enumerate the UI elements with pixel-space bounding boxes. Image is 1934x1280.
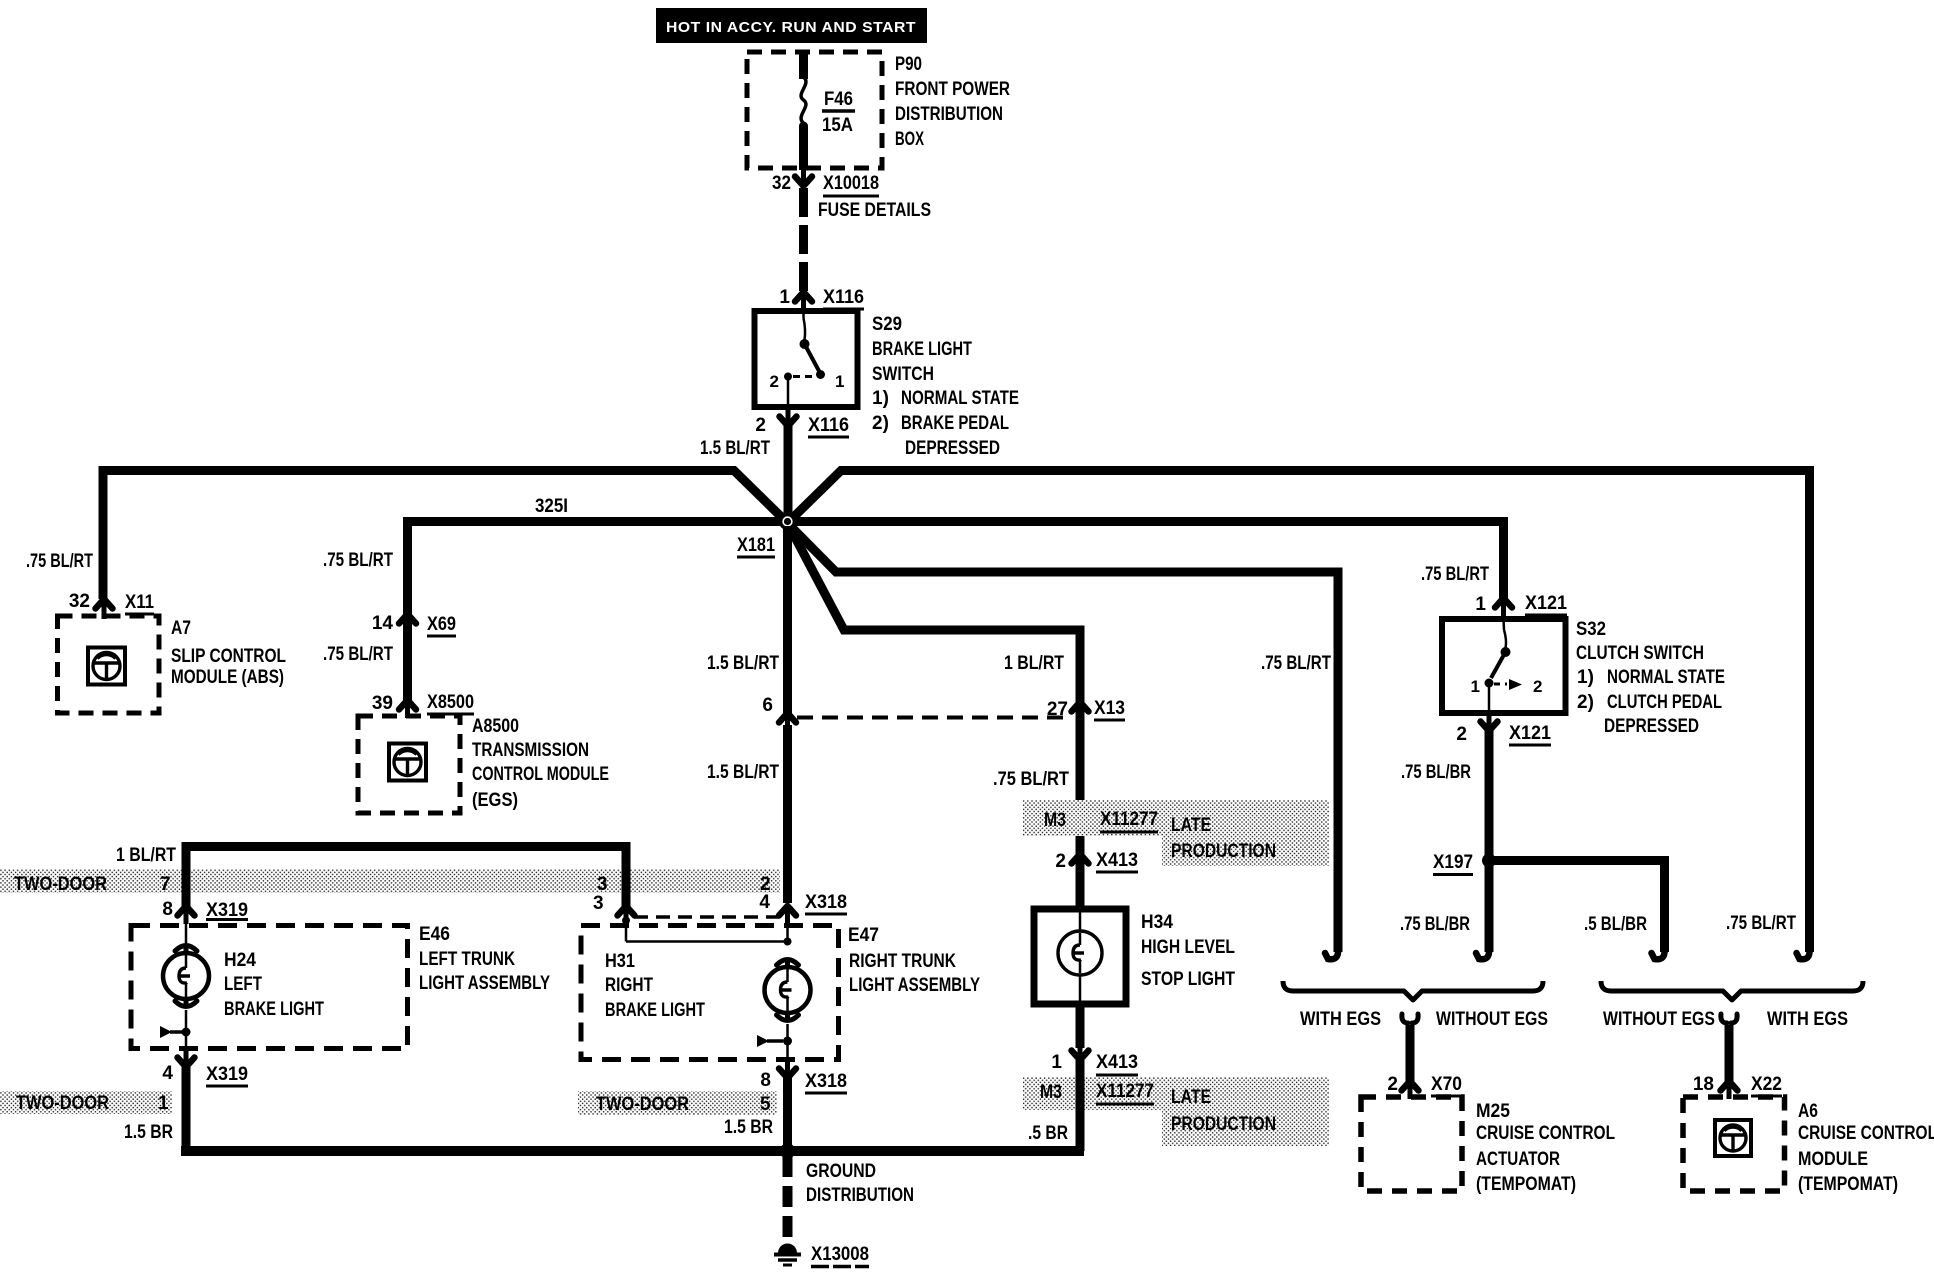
svg-text:TWO-DOOR: TWO-DOOR (14, 874, 107, 895)
label .75 BL/BR (below S32) (1401, 762, 1471, 783)
svg-text:BOX: BOX (895, 129, 924, 150)
label FUSE DETAILS (818, 200, 931, 221)
svg-text:LATE: LATE (1171, 1087, 1211, 1108)
module A8500 box (dashed) (358, 716, 460, 813)
svg-text:14: 14 (372, 613, 394, 634)
icon A8500 module (389, 744, 426, 781)
svg-text:STOP LIGHT: STOP LIGHT (1141, 969, 1235, 990)
svg-text:CLUTCH PEDAL: CLUTCH PEDAL (1607, 692, 1722, 713)
splice arrow H24 (160, 1026, 191, 1051)
svg-text:BRAKE LIGHT: BRAKE LIGHT (224, 999, 324, 1020)
connector X121 pin 2 (1456, 715, 1551, 745)
label A8500 TRANSMISSION CONTROL MODULE (EGS) (472, 716, 609, 811)
wire hook without-egs-left (brace2) (1652, 938, 1665, 959)
splice arrow H31 (757, 1035, 792, 1062)
labels TWO-DOOR 1 (16, 1093, 169, 1114)
wire node to EGS-option branch (788, 523, 1339, 940)
svg-text:BRAKE LIGHT: BRAKE LIGHT (605, 1000, 705, 1021)
label .75 BL/RT (X13 below) (993, 769, 1069, 790)
label S32 CLUTCH SWITCH notes (1576, 619, 1725, 737)
fuse F46 15A (799, 50, 808, 170)
svg-text:7: 7 (160, 874, 171, 895)
brace EGS options (right pair) (1601, 981, 1863, 1000)
svg-text:HIGH LEVEL: HIGH LEVEL (1141, 937, 1235, 958)
svg-text:X13: X13 (1094, 698, 1125, 719)
svg-text:A7: A7 (171, 618, 191, 639)
label P90 FRONT POWER DISTRIBUTION BOX (895, 54, 1010, 150)
lamp H34 box (1034, 909, 1126, 1004)
wire X197 down (1485, 865, 1494, 940)
svg-text:1.5 BL/RT: 1.5 BL/RT (707, 762, 779, 783)
svg-text:LIGHT ASSEMBLY: LIGHT ASSEMBLY (419, 973, 550, 994)
svg-text:1 BL/RT: 1 BL/RT (1004, 653, 1064, 674)
svg-text:1): 1) (872, 388, 889, 409)
label 1.5 BL/RT (below node) (707, 653, 779, 674)
label F46 / 15A (822, 89, 855, 136)
svg-text:RIGHT: RIGHT (605, 975, 653, 996)
label E46 LEFT TRUNK LIGHT ASSEMBLY (419, 924, 550, 994)
label .75 BL/RT (X69 below) (323, 644, 393, 665)
svg-text:X11: X11 (125, 592, 154, 613)
labels TWO-DOOR 7 3 2 (top band) (14, 874, 771, 895)
svg-text:SWITCH: SWITCH (872, 364, 934, 385)
svg-text:39: 39 (372, 693, 393, 714)
svg-text:BRAKE PEDAL: BRAKE PEDAL (901, 413, 1009, 434)
wire ground bus (181, 1146, 1084, 1156)
svg-text:X181: X181 (737, 535, 775, 556)
wire node to A8500 branch (408, 522, 788, 615)
svg-text:6: 6 (762, 695, 773, 716)
connector X413 pin 1 (1051, 1044, 1138, 1075)
wire X13 to X413 (1076, 704, 1085, 854)
svg-text:8: 8 (760, 1070, 771, 1091)
svg-text:1: 1 (158, 1093, 169, 1114)
svg-text:SLIP CONTROL: SLIP CONTROL (171, 646, 286, 667)
svg-text:27: 27 (1047, 699, 1068, 720)
switch S32 contacts (1471, 619, 1543, 717)
svg-text:1.5 BL/RT: 1.5 BL/RT (700, 438, 770, 459)
svg-text:TRANSMISSION: TRANSMISSION (472, 740, 589, 761)
svg-text:.75 BL/BR: .75 BL/BR (1400, 914, 1470, 935)
svg-text:WITH EGS: WITH EGS (1300, 1009, 1381, 1030)
label A6 CRUISE CONTROL MODULE (TEMPOMAT) (1798, 1101, 1934, 1195)
wire node to H34 branch (788, 523, 1081, 702)
wire trunk jumper (186, 847, 626, 907)
gray band TWO-DOOR (top) (0, 869, 780, 893)
svg-text:1.5 BL/RT: 1.5 BL/RT (707, 653, 779, 674)
svg-text:BRAKE LIGHT: BRAKE LIGHT (872, 339, 972, 360)
module A6 box (dashed) (1683, 1097, 1785, 1191)
svg-text:DISTRIBUTION: DISTRIBUTION (895, 104, 1003, 125)
connector X121 pin 1 (1475, 593, 1567, 616)
svg-text:2: 2 (1533, 677, 1542, 696)
node X181 junction (781, 515, 795, 529)
svg-text:P90: P90 (895, 54, 922, 75)
svg-text:.75 BL/RT: .75 BL/RT (1261, 653, 1331, 674)
svg-text:2: 2 (1456, 724, 1467, 745)
label 1.5 BR (left) (124, 1122, 173, 1143)
svg-text:X121: X121 (1525, 593, 1567, 614)
svg-text:H34: H34 (1141, 912, 1173, 933)
wire S29 pin2 to node X181 (784, 426, 793, 519)
svg-text:32: 32 (69, 591, 90, 612)
ground symbol X13008 (774, 1244, 869, 1267)
label .5 BR (1028, 1123, 1068, 1144)
label H34 HIGH LEVEL STOP LIGHT (1141, 912, 1235, 990)
svg-text:X11277: X11277 (1100, 809, 1158, 830)
svg-text:2): 2) (1577, 692, 1594, 713)
lamp H31 right brake light (765, 959, 811, 1038)
dashed option link pin6 to X13 (797, 716, 1070, 720)
svg-text:1: 1 (1471, 677, 1480, 696)
svg-text:X319: X319 (206, 1064, 248, 1085)
labels M3 X11277 LATE PRODUCTION (upper) (1044, 809, 1276, 862)
label A7 SLIP CONTROL MODULE (ABS) (171, 618, 286, 688)
svg-text:M3: M3 (1044, 810, 1066, 831)
wire hook without-egs-right (brace1) (1476, 938, 1489, 959)
wire X413 pin1 to ground bus (1076, 1060, 1085, 1151)
connector X22 pin 18 (1693, 1074, 1782, 1099)
svg-text:1.5 BR: 1.5 BR (124, 1122, 173, 1143)
svg-text:LATE: LATE (1171, 815, 1211, 836)
svg-text:18: 18 (1693, 1074, 1714, 1095)
svg-text:MODULE: MODULE (1798, 1149, 1868, 1170)
svg-text:NORMAL STATE: NORMAL STATE (901, 388, 1019, 409)
fuse box P90 (dashed) (747, 52, 882, 168)
wire node down to pin 6 (783, 526, 792, 713)
svg-text:1.5 BR: 1.5 BR (724, 1117, 773, 1138)
svg-text:1 BL/RT: 1 BL/RT (116, 845, 176, 866)
svg-text:X319: X319 (206, 900, 248, 921)
svg-text:CLUTCH SWITCH: CLUTCH SWITCH (1576, 643, 1704, 664)
svg-text:(TEMPOMAT): (TEMPOMAT) (1476, 1174, 1576, 1195)
svg-text:.75 BL/RT: .75 BL/RT (1726, 913, 1796, 934)
connector X13 pin 27 (1047, 698, 1125, 720)
svg-text:4: 4 (759, 892, 770, 913)
svg-text:X13008: X13008 (811, 1244, 869, 1265)
svg-text:.75 BL/RT: .75 BL/RT (323, 550, 393, 571)
icon A7 module (88, 648, 125, 685)
svg-text:1: 1 (779, 287, 790, 308)
svg-text:A6: A6 (1798, 1101, 1818, 1122)
svg-text:1: 1 (1475, 594, 1486, 615)
label H31 RIGHT BRAKE LIGHT (605, 951, 705, 1021)
svg-text:X70: X70 (1431, 1074, 1462, 1095)
connector X318 pin 4 (759, 892, 847, 924)
labels TWO-DOOR 5 (596, 1094, 771, 1115)
label 1.5 BL/RT (switch feed) (700, 438, 770, 459)
lamp H34 bulb (1058, 912, 1102, 1001)
svg-text:(TEMPOMAT): (TEMPOMAT) (1798, 1174, 1898, 1195)
connector pin 6 (762, 695, 796, 729)
svg-text:.75 BL/RT: .75 BL/RT (323, 644, 393, 665)
svg-text:1: 1 (835, 372, 844, 391)
labels M3 X11277 LATE PRODUCTION (lower) (1040, 1081, 1276, 1135)
svg-text:S29: S29 (872, 314, 902, 335)
svg-text:WITHOUT EGS: WITHOUT EGS (1603, 1009, 1715, 1030)
icon A6 module (1715, 1120, 1751, 1156)
svg-text:4: 4 (162, 1063, 173, 1084)
svg-text:CONTROL MODULE: CONTROL MODULE (472, 764, 609, 785)
svg-text:LIGHT ASSEMBLY: LIGHT ASSEMBLY (849, 975, 980, 996)
gray band TWO-DOOR 5 (right) (578, 1091, 777, 1115)
svg-text:X121: X121 (1509, 723, 1551, 744)
connector X116 pin 1 (779, 287, 864, 310)
actuator M25 box (dashed) (1361, 1097, 1462, 1191)
label .75 BL/RT (option right) (1726, 913, 1796, 934)
svg-text:DEPRESSED: DEPRESSED (1604, 716, 1699, 737)
svg-text:2: 2 (770, 372, 779, 391)
switch S29 box (755, 311, 858, 407)
svg-text:.75 BL/RT: .75 BL/RT (26, 551, 93, 572)
wire X197 to right-down (1489, 861, 1665, 941)
svg-text:5: 5 (760, 1094, 771, 1115)
svg-text:.75 BL/BR: .75 BL/BR (1401, 762, 1471, 783)
wire ground distribution (dashed) (783, 1156, 793, 1240)
svg-text:2: 2 (755, 415, 766, 436)
svg-text:X413: X413 (1096, 1052, 1138, 1073)
svg-text:LEFT: LEFT (224, 974, 262, 995)
svg-text:MODULE (ABS): MODULE (ABS) (171, 667, 284, 688)
connector X69 pin 14 (372, 613, 456, 636)
label S29 BRAKE LIGHT SWITCH notes (872, 314, 1019, 459)
switch S32 box (1442, 619, 1566, 713)
wire hook far right (1797, 938, 1810, 959)
wire X69 to X8500 (403, 616, 412, 700)
svg-text:2: 2 (1055, 851, 1066, 872)
svg-text:GROUND: GROUND (806, 1161, 876, 1182)
wire brace2 to X22 (1721, 1014, 1737, 1081)
wire X318 pin8 to ground bus (783, 1078, 792, 1151)
svg-text:X11277: X11277 (1096, 1081, 1154, 1102)
assembly E46 box (dashed) (131, 926, 408, 1049)
svg-text:RIGHT TRUNK: RIGHT TRUNK (849, 951, 956, 972)
svg-text:3: 3 (593, 893, 604, 914)
connector X318 pin 3 (internal link) (618, 906, 792, 946)
svg-text:CRUISE CONTROL: CRUISE CONTROL (1476, 1123, 1615, 1144)
svg-text:X8500: X8500 (427, 692, 474, 713)
switch S29 contacts (770, 311, 845, 412)
svg-text:15A: 15A (822, 115, 853, 136)
svg-text:S32: S32 (1576, 619, 1606, 640)
label GROUND DISTRIBUTION (806, 1161, 914, 1206)
gray band TWO-DOOR 1 (left) (0, 1091, 172, 1114)
svg-text:.75 BL/RT: .75 BL/RT (993, 769, 1069, 790)
svg-text:DEPRESSED: DEPRESSED (905, 438, 1000, 459)
svg-text:8: 8 (162, 899, 173, 920)
wire brace1 to X70 (1402, 1014, 1418, 1081)
svg-text:CRUISE CONTROL: CRUISE CONTROL (1798, 1123, 1934, 1144)
label H24 LEFT BRAKE LIGHT (224, 950, 324, 1020)
label 325I (535, 496, 568, 517)
brace EGS options (left pair) (1283, 981, 1543, 1000)
svg-text:A8500: A8500 (472, 716, 519, 737)
svg-text:.5 BL/BR: .5 BL/BR (1584, 914, 1647, 935)
label E47 RIGHT TRUNK LIGHT ASSEMBLY (848, 925, 980, 996)
wire node to S32 branch (788, 522, 1504, 599)
connector X318 pin 8 (760, 1062, 847, 1093)
wire X319 pin4 to ground bus (182, 1067, 191, 1151)
wire node to far right (top) (788, 471, 1810, 941)
svg-text:325I: 325I (535, 496, 568, 517)
wire fuse details (dashed) (799, 188, 808, 292)
svg-text:WITH EGS: WITH EGS (1767, 1009, 1848, 1030)
svg-text:HOT IN ACCY. RUN AND START: HOT IN ACCY. RUN AND START (666, 19, 916, 36)
gray band M3 X11277 LATE PRODUCTION (lower) (1023, 1077, 1329, 1146)
labels WITHOUT EGS / WITH EGS (brace2) (1603, 1009, 1848, 1030)
assembly E47 box (dashed) (581, 926, 839, 1060)
connector X319 pin 8 (162, 899, 248, 924)
svg-text:E46: E46 (419, 924, 450, 945)
wire S32 to X197 (1485, 731, 1494, 862)
label .75 BL/RT (X69 above) (323, 550, 393, 571)
connector X70 pin 2 (1387, 1074, 1462, 1099)
label pin 3 (E47 two-door) (593, 893, 604, 914)
svg-text:FUSE DETAILS: FUSE DETAILS (818, 200, 931, 221)
label 1.5 BL/RT (to brake lights) (707, 762, 779, 783)
power source banner HOT IN ACCY RUN AND START (656, 8, 927, 43)
wire pin6 to X318 pin4 (783, 725, 792, 903)
labels WITH EGS / WITHOUT EGS (brace1) (1300, 1009, 1548, 1030)
svg-text:E47: E47 (848, 925, 879, 946)
label 1 BL/RT (jumper) (116, 845, 176, 866)
svg-text:X116: X116 (808, 415, 849, 436)
svg-text:X116: X116 (823, 287, 864, 308)
svg-text:1): 1) (1577, 667, 1594, 688)
svg-text:2: 2 (1387, 1074, 1398, 1095)
label .75 BL/RT (A7 branch) (26, 551, 93, 572)
label .75 BL/RT (S32 feed) (1421, 564, 1489, 585)
connector X8500 pin 39 (372, 692, 474, 718)
svg-text:PRODUCTION: PRODUCTION (1171, 1114, 1276, 1135)
svg-text:(EGS): (EGS) (472, 790, 518, 811)
junction ground node (780, 1143, 796, 1159)
junction X197 (1433, 852, 1496, 875)
svg-text:NORMAL STATE: NORMAL STATE (1607, 667, 1725, 688)
label X181 (737, 535, 775, 557)
label M25 CRUISE CONTROL ACTUATOR (TEMPOMAT) (1476, 1101, 1615, 1195)
connector X10018 pin 32 (772, 168, 879, 196)
lamp H24 left brake light (163, 920, 209, 1029)
svg-text:WITHOUT EGS: WITHOUT EGS (1436, 1009, 1548, 1030)
svg-text:LEFT TRUNK: LEFT TRUNK (419, 949, 515, 970)
svg-text:2): 2) (872, 413, 889, 434)
label .5 BL/BR (option) (1584, 914, 1647, 935)
gray band M3 X11277 LATE PRODUCTION (upper) (1023, 800, 1329, 866)
label 1.5 BR (right) (724, 1117, 773, 1138)
svg-text:F46: F46 (824, 89, 853, 110)
label .75 BL/RT (option branch) (1261, 653, 1331, 674)
svg-text:X318: X318 (805, 1071, 847, 1092)
svg-text:3: 3 (597, 874, 608, 895)
svg-text:TWO-DOOR: TWO-DOOR (16, 1093, 109, 1114)
label 1 BL/RT (H34 branch) (1004, 653, 1064, 674)
svg-text:ACTUATOR: ACTUATOR (1476, 1149, 1560, 1170)
label .75 BL/BR (option) (1400, 914, 1470, 935)
svg-text:X69: X69 (427, 614, 456, 635)
wire X413 to H34 (1076, 856, 1085, 911)
svg-text:PRODUCTION: PRODUCTION (1171, 841, 1276, 862)
svg-text:M3: M3 (1040, 1082, 1062, 1103)
svg-text:TWO-DOOR: TWO-DOOR (596, 1094, 689, 1115)
svg-text:32: 32 (772, 173, 791, 194)
svg-text:X10018: X10018 (823, 173, 879, 194)
svg-text:X197: X197 (1433, 852, 1473, 873)
wire node to A7 (left top) (103, 471, 788, 600)
svg-text:DISTRIBUTION: DISTRIBUTION (806, 1185, 914, 1206)
connector X413 pin 2 (1055, 850, 1138, 872)
svg-text:M25: M25 (1476, 1101, 1510, 1122)
svg-text:H24: H24 (224, 950, 256, 971)
connector X116 pin 2 (755, 408, 849, 437)
connector X319 pin 4 (162, 1051, 248, 1086)
svg-text:.75 BL/RT: .75 BL/RT (1421, 564, 1489, 585)
svg-text:1: 1 (1051, 1052, 1062, 1073)
svg-text:H31: H31 (605, 951, 635, 972)
wire H34 to X413 pin1 (1076, 1004, 1085, 1048)
svg-text:X413: X413 (1096, 850, 1138, 871)
svg-text:X22: X22 (1751, 1074, 1782, 1095)
svg-text:.5 BR: .5 BR (1028, 1123, 1068, 1144)
svg-text:FRONT POWER: FRONT POWER (895, 79, 1010, 100)
connector X11 pin 32 (69, 591, 155, 619)
svg-text:X318: X318 (805, 892, 847, 913)
wire hook with-egs-left (1325, 938, 1338, 959)
module A7 box (dashed) (58, 616, 160, 713)
